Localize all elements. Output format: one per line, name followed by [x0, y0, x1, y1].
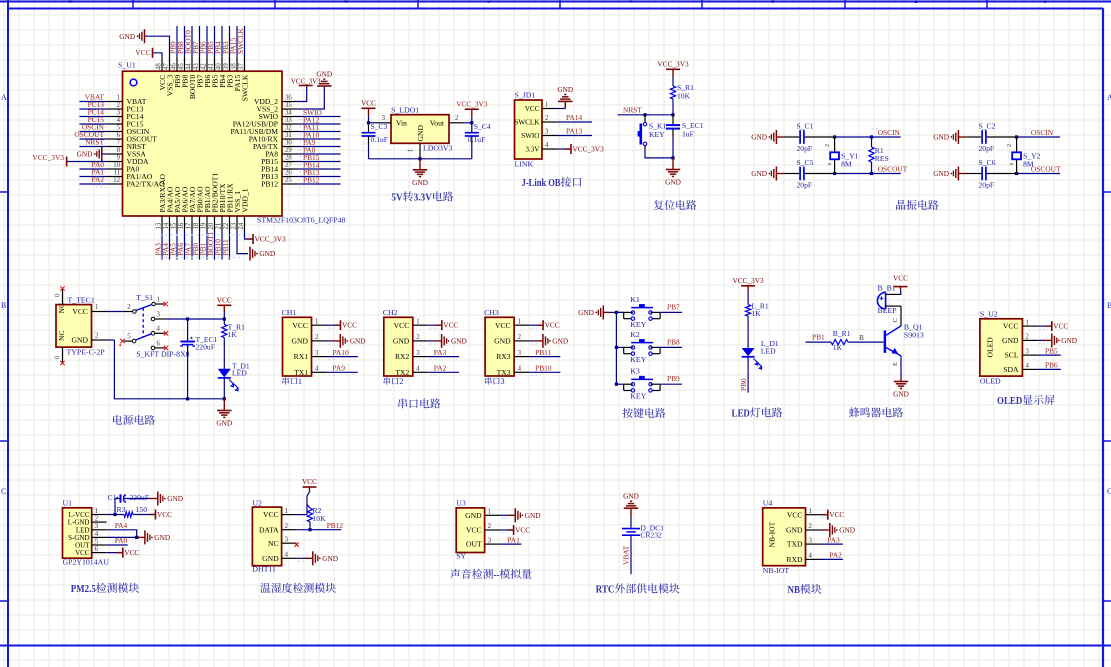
- wire sound pin 1 to GND: [500, 514, 507, 516]
- svg-text:1: 1: [157, 297, 160, 304]
- header CH1 pin 1 (VCC): [312, 324, 327, 326]
- svg-text:OLED: OLED: [986, 337, 995, 358]
- svg-text:VCC: VCC: [1003, 322, 1019, 331]
- svg-text:OSCIN: OSCIN: [878, 128, 901, 137]
- power port VCC at CH2: [436, 324, 442, 326]
- mcu U1 top pin 44 (BOOT0): [191, 56, 193, 71]
- svg-text:KEY: KEY: [630, 355, 646, 364]
- nb U4 pin 2 (GND): [806, 529, 821, 531]
- mcu U1 top pin 37 (SWCLK): [244, 56, 246, 71]
- svg-text:1: 1: [488, 509, 491, 516]
- wire net PB12 from U1 pin 25: [297, 183, 341, 185]
- power GND above U1 pin 35: [317, 85, 331, 87]
- svg-text:4: 4: [518, 366, 522, 373]
- wire net PA10 from U1 pin 31: [297, 138, 341, 140]
- wire buzzer bottom pin to transistor collector: [900, 306, 902, 326]
- svg-text:220uF: 220uF: [196, 343, 215, 352]
- title NB module: [788, 584, 822, 596]
- wire GND to U1 pin 8: [101, 153, 108, 155]
- svg-text:45: 45: [178, 63, 185, 70]
- wire T_R1 to LED T_D1: [223, 338, 225, 369]
- power GND (power circuit): [223, 399, 225, 411]
- svg-text:OLED: OLED: [997, 395, 1022, 407]
- svg-text:STM32F103C8T6_LQFP48: STM32F103C8T6_LQFP48: [257, 216, 345, 225]
- wire net PC15 to U1 pin 4: [80, 123, 109, 125]
- wire net PB8 from key K2: [660, 346, 682, 348]
- svg-text:SY: SY: [456, 551, 466, 560]
- wire oled pin 1 to VCC: [1037, 325, 1051, 327]
- wire GND to U1 pin 47: [144, 36, 170, 56]
- oled U2 pin 2 (GND): [1022, 339, 1037, 341]
- mcu U1 top pin 40 (PB4): [221, 56, 223, 71]
- svg-text:PA2: PA2: [92, 175, 105, 184]
- svg-text:PM2.5: PM2.5: [71, 583, 97, 595]
- svg-text:3: 3: [488, 537, 492, 544]
- mcu U1 left pin 1 (VBAT): [108, 101, 123, 103]
- power GND above jlink pin 1: [564, 101, 566, 108]
- wire net PB13 from U1 pin 26: [297, 176, 341, 178]
- wire S_C1 to crystal node: [805, 136, 835, 138]
- svg-text:28: 28: [285, 155, 292, 162]
- svg-text:VCC: VCC: [302, 477, 317, 486]
- wire U1 pin 24 (VDD_1) to VCC_3V3: [245, 231, 254, 239]
- mcu U1 top pin 42 (PB6): [206, 56, 208, 71]
- resistor S_R1 10K: [670, 86, 675, 99]
- svg-text:VCC_3V3: VCC_3V3: [255, 235, 287, 244]
- pm25 U1 pin 3 (LED): [92, 529, 107, 531]
- mcu U1 left pin 8 (VSSA): [108, 153, 123, 155]
- typec NC pin bottom: [62, 347, 64, 362]
- svg-text:2: 2: [416, 334, 420, 341]
- mcu U1 left pin 3 (PC14): [108, 116, 123, 118]
- wire VCC to U1 pin 48: [153, 53, 163, 56]
- svg-text:VCC: VCC: [495, 321, 511, 330]
- svg-text:VCC: VCC: [135, 48, 150, 57]
- svg-text:10K: 10K: [677, 92, 691, 101]
- svg-text:220uF: 220uF: [130, 493, 149, 502]
- led L_D1 LED: [742, 348, 755, 356]
- header CH3 body: [485, 317, 514, 376]
- mcu U1 bottom pin 17 (PA7/AO): [191, 216, 193, 231]
- svg-text:NRST: NRST: [85, 138, 104, 147]
- svg-text:VCC: VCC: [1053, 322, 1068, 331]
- power port VCC at pm25 pin 6: [117, 552, 123, 554]
- svg-text:GND: GND: [416, 125, 425, 142]
- wire net PB0 below led: [747, 357, 749, 393]
- sound U3 pin 3 (OUT): [485, 543, 500, 545]
- wire dht11 pin 1 up to VCC: [297, 496, 307, 515]
- switch pin 3: [151, 317, 155, 321]
- svg-text:2: 2: [545, 115, 549, 122]
- top ruler zone ticks: [132, 0, 134, 9]
- wire net PB7 to U1 pin 43: [199, 26, 201, 56]
- svg-text:14: 14: [163, 222, 170, 229]
- mcu U1 top pin 41 (PB5): [214, 56, 216, 71]
- switch lever 2 (pins 5-4): [136, 334, 152, 340]
- wire net PA3 from CH2 pin 3: [428, 356, 459, 358]
- wire L_R1 to led L_D1: [747, 316, 749, 348]
- wire net PB7 from key K1: [660, 311, 682, 313]
- crystal S_Y2 8M: [1016, 137, 1018, 152]
- wire emitter to GND: [900, 356, 902, 378]
- svg-text:PA1: PA1: [507, 535, 520, 544]
- svg-text:PB6: PB6: [1045, 361, 1058, 370]
- power GND left of U1 pin 47: [137, 35, 139, 37]
- svg-text:VCC_3V3: VCC_3V3: [456, 99, 488, 108]
- dht11 U2 body: [252, 507, 281, 566]
- transistor B_Q1 S9013 (npn): [884, 330, 887, 353]
- svg-text:CH1: CH1: [282, 308, 297, 317]
- svg-text:U3: U3: [456, 499, 466, 508]
- mcu U1 right pin 33 (PA12/USB/DP): [282, 123, 297, 125]
- svg-text:16: 16: [178, 222, 185, 229]
- svg-text:VCC_3V3: VCC_3V3: [32, 153, 64, 162]
- svg-text:4: 4: [117, 117, 121, 124]
- svg-text:2: 2: [1007, 144, 1013, 147]
- svg-text:R3: R3: [117, 505, 126, 514]
- svg-text:2: 2: [455, 115, 459, 122]
- wire R2 to DATA line: [309, 522, 311, 530]
- wire net PB1 from U1 pin 19: [206, 231, 208, 260]
- svg-text:34: 34: [285, 110, 292, 117]
- svg-text:1: 1: [298, 377, 302, 386]
- title PM2.5 module: [71, 583, 139, 595]
- svg-text:6: 6: [344, 0, 348, 5]
- svg-text:GND: GND: [623, 492, 639, 501]
- wire net BOOT0 to U1 pin 44: [191, 26, 193, 56]
- pm25 U1 pin 2 (L-GND): [92, 521, 107, 523]
- svg-text:20pF: 20pF: [797, 181, 813, 190]
- wire net PA7 from U1 pin 17: [191, 231, 193, 260]
- svg-text:B: B: [1, 301, 6, 310]
- oled U2 pin 4 (SDA): [1022, 368, 1037, 370]
- svg-text:31: 31: [285, 132, 292, 139]
- svg-text:VCC: VCC: [157, 510, 172, 519]
- wire net NRST to U1 pin 7: [80, 146, 109, 148]
- wire VCC to ldo pin 3 and cap C3: [368, 116, 370, 123]
- svg-text:E: E: [892, 362, 899, 366]
- wire pm25 pin 1 node: [107, 514, 124, 516]
- svg-text:VCC: VCC: [217, 296, 232, 305]
- svg-text:1: 1: [1043, 0, 1047, 5]
- pm25 U1 pin 4 (S-GND): [92, 536, 107, 538]
- svg-text:VCC: VCC: [525, 105, 540, 113]
- wire nb pin 1 to VCC: [821, 514, 828, 516]
- svg-text:GND: GND: [933, 169, 949, 178]
- wire net PB11 from U1 pin 22: [229, 231, 231, 260]
- wire net PB5 to U1 pin 41: [214, 26, 216, 56]
- svg-text:PB0: PB0: [739, 378, 748, 391]
- svg-text:21: 21: [216, 223, 223, 230]
- svg-text:U2: U2: [252, 498, 262, 507]
- svg-text:LED: LED: [761, 347, 776, 356]
- svg-text:PA4: PA4: [115, 521, 128, 530]
- ldo pin 3 stub: [376, 122, 391, 124]
- svg-text:GND: GND: [292, 337, 309, 346]
- svg-text:3: 3: [285, 536, 289, 543]
- wire CH1 pin 1 to VCC: [327, 324, 341, 326]
- svg-text:PB8: PB8: [667, 337, 680, 346]
- title RTC external power module: [596, 583, 680, 595]
- svg-text:41: 41: [208, 63, 215, 70]
- power GND (rtc, inverted): [624, 507, 638, 509]
- dht11 U2 pin 2 (DATA): [282, 529, 297, 531]
- svg-text:VDD_1: VDD_1: [240, 188, 249, 212]
- resistor L_R1 1K: [746, 305, 751, 317]
- svg-text:2: 2: [315, 334, 319, 341]
- wire VCC_3V3 to U1 pin 9: [67, 161, 108, 163]
- wire net PA2 from nb pin 4: [821, 558, 843, 560]
- svg-text:VCC: VCC: [342, 321, 357, 330]
- power GND (buzzer): [900, 378, 902, 382]
- svg-text:VCC: VCC: [443, 321, 458, 330]
- wire node to OSC label row 1: [1017, 173, 1061, 175]
- wire net PA10 from CH1 pin 3: [327, 356, 358, 358]
- svg-text:5: 5: [127, 333, 131, 340]
- svg-text:TX2: TX2: [395, 368, 409, 377]
- sound U3 pin 1 (GND): [485, 514, 500, 516]
- typec NC pin top: [62, 289, 64, 305]
- buzzer pins: [886, 293, 901, 295]
- svg-text:GND: GND: [552, 337, 568, 346]
- svg-text:--: --: [494, 569, 500, 581]
- power port VCC at U1 pin 48: [152, 48, 154, 58]
- svg-text:1: 1: [117, 95, 120, 102]
- wire net PA2 to U1 pin 12: [80, 183, 109, 185]
- svg-text:GND: GND: [893, 390, 909, 399]
- svg-text:VCC: VCC: [515, 526, 530, 535]
- svg-text:4: 4: [416, 366, 420, 373]
- header CH2 pin 3 (RX2): [413, 356, 428, 358]
- svg-text:S_LDO1: S_LDO1: [391, 106, 419, 115]
- power GND at dht11 pin 4: [312, 551, 314, 565]
- jlink JD1 pin 1 (VCC): [542, 108, 557, 110]
- svg-text:3: 3: [771, 0, 775, 5]
- svg-text:GND: GND: [557, 85, 573, 94]
- svg-text:KEY: KEY: [630, 392, 646, 401]
- svg-text:25: 25: [285, 177, 292, 184]
- svg-text:K1: K1: [630, 295, 640, 304]
- svg-text:0: 0: [55, 293, 62, 297]
- nb U4 body: [763, 508, 806, 566]
- power GND at sound pin 1: [514, 508, 516, 522]
- svg-text:GND: GND: [216, 419, 232, 428]
- wire net PB9 to U1 pin 46: [176, 26, 178, 56]
- title sound detection analog: [450, 569, 531, 581]
- svg-text:C: C: [892, 318, 899, 323]
- svg-text:RES: RES: [875, 154, 889, 163]
- svg-text:SWCLK: SWCLK: [514, 119, 540, 127]
- capacitor C3: [368, 123, 370, 133]
- svg-text:2: 2: [518, 334, 522, 341]
- svg-text:VCC: VCC: [829, 510, 844, 519]
- crystal S_Y1 8M: [834, 137, 836, 152]
- wire VCC down to node: [223, 312, 225, 319]
- pm25 U1 pin 5 (OUT): [92, 544, 107, 546]
- svg-text:SWCLK: SWCLK: [236, 27, 245, 54]
- svg-text:KEY: KEY: [649, 130, 665, 139]
- wire GND to capacitor S_C1: [776, 136, 784, 138]
- power GND at U1 pin 8: [94, 153, 96, 155]
- header CH3 pin 2 (GND): [514, 340, 529, 342]
- mcu U1 left pin 10 (PA0): [108, 168, 123, 170]
- svg-text:U4: U4: [763, 499, 773, 508]
- wire net PA0 to U1 pin 10: [80, 168, 109, 170]
- svg-text:0.1uF: 0.1uF: [468, 135, 486, 144]
- svg-text:2: 2: [117, 102, 121, 109]
- svg-text:3: 3: [117, 110, 121, 117]
- svg-text:1: 1: [95, 508, 98, 515]
- svg-text:3: 3: [382, 115, 386, 122]
- mcu U1 right pin 35 (VSS_2): [282, 108, 297, 110]
- capacitor T_EC1 220uF: [187, 319, 189, 335]
- mcu U1 right pin 27 (PB14): [282, 168, 297, 170]
- title crystal circuit: [896, 200, 938, 210]
- svg-text:Vout: Vout: [430, 119, 445, 128]
- svg-text:PA13: PA13: [566, 127, 582, 136]
- battery D_DC1 CR232: [622, 528, 640, 530]
- mcu U1 top pin 39 (PB3): [229, 56, 231, 71]
- title reset circuit: [654, 200, 697, 210]
- svg-text:S_C4: S_C4: [474, 122, 491, 131]
- svg-text:GP2Y1014AU: GP2Y1014AU: [63, 558, 110, 567]
- mcu U1 right pin 29 (PA8): [282, 153, 297, 155]
- svg-text:BEEP: BEEP: [878, 306, 898, 315]
- svg-text:LINK: LINK: [515, 160, 534, 169]
- svg-text:VCC: VCC: [124, 548, 139, 557]
- svg-text:PA10: PA10: [333, 348, 349, 357]
- svg-text:3: 3: [545, 129, 549, 136]
- mcu U1 top pin 43 (PB7): [199, 56, 201, 71]
- svg-text:VCC: VCC: [75, 549, 90, 557]
- power port VCC_3V3 at U1 pin 24: [247, 238, 253, 240]
- svg-text:39: 39: [223, 63, 230, 70]
- typec TEC1 body: [56, 305, 92, 348]
- wire net PB8 to U1 pin 45: [184, 26, 186, 56]
- svg-text:LED: LED: [732, 408, 750, 420]
- svg-text:PA2: PA2: [434, 364, 447, 373]
- title 5V to 3.3V circuit: [391, 191, 453, 203]
- wire net PA3 from nb pin 3: [821, 543, 843, 545]
- svg-text:1: 1: [545, 102, 548, 109]
- wire GND to key trunk: [603, 311, 610, 313]
- power port VCC at CH3: [537, 324, 543, 326]
- svg-text:19: 19: [201, 222, 208, 229]
- svg-text:8: 8: [117, 147, 121, 154]
- svg-text:B: B: [859, 334, 864, 342]
- svg-text:2: 2: [809, 523, 813, 530]
- wire node to OSC label row 0: [1017, 136, 1061, 138]
- svg-text:5: 5: [95, 538, 99, 545]
- svg-text:PA3: PA3: [827, 535, 840, 544]
- mcu U1 bottom pin 22 (PB11/RX): [229, 216, 231, 231]
- svg-text:3: 3: [157, 311, 161, 318]
- power GND (keys): [595, 312, 597, 314]
- svg-text:C: C: [1, 487, 6, 496]
- mcu U1 body: [123, 71, 283, 216]
- svg-text:6: 6: [117, 132, 121, 139]
- wire S_C6 to crystal node: [987, 173, 1017, 175]
- svg-text:PB1: PB1: [812, 333, 825, 342]
- svg-text:33: 33: [285, 117, 292, 124]
- svg-text:S_C1: S_C1: [797, 122, 814, 131]
- svg-text:GND: GND: [494, 337, 511, 346]
- svg-text:PB5: PB5: [1045, 346, 1058, 355]
- svg-text:GND: GND: [451, 337, 467, 346]
- svg-text:3: 3: [1026, 348, 1030, 355]
- wire GND to battery DC1: [630, 517, 632, 528]
- mcu U1 bottom pin 24 (VDD_1): [244, 216, 246, 231]
- mcu U1 top pin 45 (PB8): [184, 56, 186, 71]
- mcu U1 right pin 28 (PB15): [282, 161, 297, 163]
- power GND for S_C2: [951, 136, 953, 138]
- wire net PB9 from key K3: [660, 383, 682, 385]
- power GND at CH3: [542, 334, 544, 348]
- capacitor S_C2 20pF: [981, 130, 983, 144]
- svg-text:VCC_3V3: VCC_3V3: [573, 145, 605, 154]
- switch gang dashed link: [142, 308, 144, 337]
- svg-text:PA3: PA3: [434, 348, 447, 357]
- mcu U1 left pin 5 (OSCIN): [108, 131, 123, 133]
- svg-text:PB11: PB11: [221, 239, 230, 255]
- svg-text:GND: GND: [665, 178, 681, 187]
- mcu U1 top pin 38 (PA15): [236, 56, 238, 71]
- header CH2 body: [384, 317, 413, 376]
- wire net PB3 to U1 pin 39: [229, 26, 231, 56]
- wire GND to capacitor S_C5: [776, 173, 784, 175]
- switch pin 5: [132, 339, 136, 343]
- svg-text:CR232: CR232: [640, 531, 662, 540]
- svg-text:S_C6: S_C6: [979, 158, 996, 167]
- svg-text:VCC: VCC: [292, 321, 308, 330]
- mcu U1 left pin 2 (PC13): [108, 108, 123, 110]
- svg-text:1: 1: [95, 304, 98, 311]
- wire CH3 pin 2 to GND: [529, 340, 535, 342]
- mcu U1 bottom pin 15 (PA5/AO): [176, 216, 178, 231]
- svg-text:GND: GND: [786, 526, 803, 535]
- svg-text:CH3: CH3: [484, 308, 499, 317]
- wire GND to capacitor S_C6: [958, 173, 966, 175]
- wire VCC to buzzer top pin: [900, 291, 903, 295]
- svg-text:LED: LED: [232, 369, 247, 378]
- svg-text:B: B: [1107, 301, 1111, 310]
- svg-text:37: 37: [238, 63, 245, 70]
- svg-text:3: 3: [95, 523, 99, 530]
- switch pin 6: [151, 346, 155, 350]
- svg-text:2: 2: [1026, 334, 1030, 341]
- header comment serial 3: [485, 377, 505, 386]
- svg-text:PA2: PA2: [829, 551, 842, 560]
- wire net PA4 from U1 pin 14: [169, 231, 171, 260]
- svg-text:1K: 1K: [751, 309, 761, 318]
- pm25 U1 body: [63, 508, 92, 558]
- power GND at nb pin 2: [829, 523, 831, 537]
- svg-text:1K: 1K: [833, 343, 843, 352]
- svg-text:SWIO: SWIO: [521, 132, 539, 140]
- svg-text:4: 4: [315, 366, 319, 373]
- capacitor S_C5 20pF: [799, 167, 801, 181]
- header CH1 pin 2 (GND): [312, 340, 327, 342]
- wire ldo pin 2 to VCC_3V3 and cap C4: [464, 122, 472, 124]
- wire CH3 pin 1 to VCC: [529, 324, 543, 326]
- svg-text:6: 6: [95, 546, 99, 553]
- wire net PB10 from U1 pin 21: [221, 231, 223, 260]
- mcu U1 left pin 7 (NRST): [108, 146, 123, 148]
- svg-text:7: 7: [117, 140, 121, 147]
- capacitor C4: [471, 123, 473, 133]
- jlink JD1 body: [515, 100, 543, 159]
- mcu U1 left pin 9 (VDDA): [108, 161, 123, 163]
